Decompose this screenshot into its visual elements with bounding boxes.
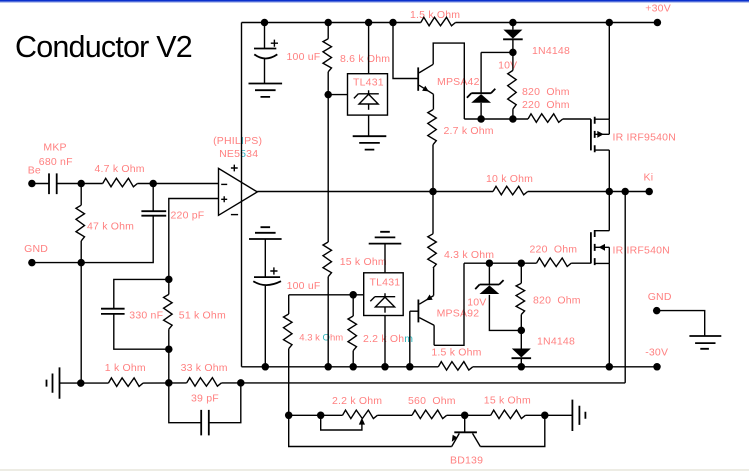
wire MPSA42 collector riser to bias wire [433, 43, 464, 119]
wire node to trimmer 2.2k [321, 414, 343, 416]
svg-text:15 k Ohm: 15 k Ohm [340, 256, 387, 268]
wire zener anode to bias wire [480, 103, 482, 119]
wire R 8.6k to TL431 ref node [327, 72, 329, 95]
trimmer resistor 2.2k bottom [343, 410, 378, 419]
wire MPSA92 base lead [410, 310, 419, 312]
svg-text:BD139: BD139 [450, 455, 483, 467]
inverted ground above TL431 bottom [369, 232, 402, 244]
svg-text:-30V: -30V [645, 347, 668, 359]
zener diode 10V top [467, 89, 495, 98]
svg-text:GND: GND [24, 243, 48, 255]
resistor 1.5k top [421, 17, 456, 26]
wire MPSA42 emitter to R 2.7k [432, 94, 434, 109]
junction rail 100uF [261, 19, 269, 27]
wire BD139 collector return [480, 415, 545, 446]
svg-text:100 uF: 100 uF [287, 280, 321, 292]
junction trimmer [317, 412, 325, 420]
wire op-amp + input down [169, 199, 219, 280]
wire R 820 to bias wire [512, 109, 514, 119]
wire left ground to node [60, 382, 81, 384]
wire op-amp supply vertical V+ to V- [241, 23, 243, 367]
junction lower ground [77, 379, 85, 387]
wire down-left to C 39pF [169, 383, 201, 423]
junction rail 2.2k [349, 363, 357, 371]
MOSFET IRF9540N [591, 117, 609, 152]
resistor 2.2k [348, 316, 357, 351]
wire -30V rail right part [609, 366, 657, 368]
svg-text:10 k Ohm: 10 k Ohm [486, 173, 533, 185]
wire inverted ground to TL431 cathode [384, 244, 386, 273]
resistor 820 top [508, 70, 517, 109]
svg-text:NE5534: NE5534 [219, 148, 258, 160]
wire node to R 1k [81, 382, 109, 384]
svg-text:(PHILIPS): (PHILIPS) [213, 135, 262, 147]
inverted ground above C 100uF bottom [249, 227, 282, 239]
capacitor 330nF [101, 309, 125, 314]
wire ref node to R 2.2k [352, 295, 354, 316]
resistor 1.5k bottom [438, 362, 473, 371]
junction rail MPSA42 base [389, 19, 397, 27]
ground left of R 1k [47, 367, 60, 398]
svg-text:2.2 k Ohm: 2.2 k Ohm [332, 395, 382, 407]
wire TL431 anode to -30V rail [384, 316, 386, 367]
wire zener anode to node [489, 295, 521, 331]
svg-text:10V: 10V [467, 296, 486, 308]
terminal GND left [28, 259, 36, 267]
junction rail 15k [324, 363, 332, 371]
wire R 51k to feedback node [168, 329, 170, 383]
svg-text:MKP: MKP [43, 141, 66, 153]
svg-text:220 Ohm: 220 Ohm [530, 244, 578, 256]
ground right of bias network [572, 400, 585, 431]
voltage reference TL431 top [348, 74, 388, 115]
resistor 4.3k mid [428, 234, 437, 268]
transistor BD139 [452, 432, 481, 446]
wire rail to R 8.6k [327, 23, 329, 39]
wire C 680nF to node [57, 183, 81, 185]
svg-text:IR IRF540N: IR IRF540N [613, 244, 670, 256]
wire rail to D 1N4148 [512, 23, 514, 30]
svg-text:33 k Ohm: 33 k Ohm [181, 362, 228, 374]
svg-text:680 nF: 680 nF [39, 156, 73, 168]
wire R 4.3k to output line [432, 192, 434, 234]
junction zener bias top [477, 115, 485, 123]
svg-text:1N4148: 1N4148 [532, 45, 570, 57]
capacitor 39pF [201, 410, 209, 436]
wire TL431 anode to ground [368, 115, 370, 136]
svg-text:10V: 10V [498, 59, 517, 71]
diode 1N4148 top [503, 30, 522, 39]
wire MPSA92 base riser to -30V rail [409, 311, 411, 367]
wire +30V rail right [456, 22, 658, 24]
junction rail MPSA92 base [406, 363, 414, 371]
svg-text:820 Ohm: 820 Ohm [533, 294, 581, 306]
capacitor 680nF MKP [49, 173, 57, 194]
svg-text:560 Ohm: 560 Ohm [408, 395, 456, 407]
wire input Be to C 680nF [32, 183, 49, 185]
svg-text:8.6 k Ohm: 8.6 k Ohm [340, 53, 390, 65]
junction rail TL431 [365, 19, 373, 27]
wire TL431 ref to R 4.3k branch [289, 294, 364, 296]
wire op-amp output to R 10k [257, 191, 493, 193]
svg-text:TL431: TL431 [353, 76, 384, 88]
wire BD139 base stub [464, 415, 466, 432]
junction inverting input [149, 180, 157, 188]
ground below C 100uF top [249, 84, 283, 97]
svg-text:4.3 k Ohm: 4.3 k Ohm [299, 333, 343, 344]
resistor 4.7k [103, 178, 138, 187]
svg-text:330 nF: 330 nF [129, 310, 163, 322]
wire R 10k to Ki terminal [528, 191, 650, 193]
trimmer wiper arrowhead [359, 418, 365, 425]
wire ref node down crossing output line [327, 95, 329, 242]
wire R 2.7k to output line [432, 145, 434, 192]
wire R 560 to BD139 base node [447, 414, 465, 416]
resistor 4.3k left [284, 314, 293, 349]
wire node to R 4.7k [81, 183, 103, 185]
junction 820 1N4148 bottom [518, 327, 526, 335]
wire bottom bias run to R 220 [464, 262, 537, 264]
terminal -30V [653, 363, 661, 371]
svg-text:MPSA92: MPSA92 [437, 308, 480, 320]
wire -30V rail mid part [473, 366, 610, 368]
wire node down to R 47k [80, 184, 82, 206]
svg-text:2.7 k Ohm: 2.7 k Ohm [444, 125, 494, 137]
svg-text:220 Ohm: 220 Ohm [522, 99, 570, 111]
wire node to R 820 [512, 52, 514, 70]
wire bias left segment [289, 414, 321, 416]
junction 820 bias bottom [518, 259, 526, 267]
wire R 47k to ground node [80, 241, 82, 263]
wire R 2.2k to -30V rail [352, 351, 354, 367]
wire +30V rail left [242, 22, 421, 24]
junction rail 1N4148 bottom [518, 363, 526, 371]
wire R 4.7k to op-amp inverting input [137, 183, 218, 185]
junction rail 100uF bottom [262, 363, 270, 371]
wire node to R 51k [168, 279, 170, 294]
junction input node [77, 180, 85, 188]
junction 51k bottom [165, 345, 173, 353]
wire inverted ground to C 100uF [264, 239, 266, 277]
junction 820 bias top [509, 115, 517, 123]
bottom status bar edge (decorative) [0, 469, 749, 471]
wire down to R 4.3k [288, 295, 290, 314]
resistor 220 top [528, 114, 563, 123]
wire node to D 1N4148 [520, 330, 522, 348]
diode 1N4148 bottom [512, 349, 531, 358]
wire C 39pF to junction [209, 383, 241, 423]
svg-text:47 k Ohm: 47 k Ohm [87, 220, 134, 232]
svg-text:820 Ohm: 820 Ohm [522, 86, 570, 98]
wire C 330nF bottom to node [114, 314, 169, 349]
wire node to C 220pF top [152, 184, 154, 212]
wire node to R 820 [520, 263, 522, 283]
junction feedback 51k [165, 379, 173, 387]
resistor 15k mid [323, 242, 332, 277]
resistor 47k [76, 205, 85, 241]
top blue browser edge (decorative) [0, 0, 749, 2]
wire node to zener branch [481, 51, 513, 53]
wire D 1N4148 to node [512, 40, 514, 53]
wire MPSA92 collector riser [434, 263, 464, 345]
resistor 51k [164, 294, 173, 329]
svg-text:MPSA42: MPSA42 [437, 76, 480, 88]
resistor 15k bottom [491, 410, 526, 419]
junction TL431 ref bottom [349, 291, 357, 299]
wire MPSA92 emitter riser to R 4.3k [433, 268, 435, 296]
wire feedback run to output riser [241, 382, 625, 384]
wire IRF9540N drain to output node [608, 150, 610, 191]
wire node down to zener 10V [488, 263, 490, 284]
junction TL431 ref top [324, 91, 332, 99]
resistor 2.7k [428, 110, 437, 145]
transistor MPSA92 [418, 295, 434, 326]
wire branch to C 330nF top [114, 279, 169, 308]
ground right GND terminal [657, 311, 722, 349]
resistor 8.6k [323, 39, 332, 72]
junction rail TL431 bottom [381, 363, 389, 371]
terminal Be [28, 180, 36, 188]
capacitor 100uF top [254, 40, 278, 59]
resistor 820 bottom [516, 283, 525, 314]
capacitor 220pF [141, 211, 166, 216]
junction rail 8.6k [324, 19, 332, 27]
ground below TL431 top [353, 136, 387, 149]
junction rail IRF540N [606, 363, 614, 371]
resistor 220 bottom [537, 258, 572, 267]
wire trimmer to R 560 [377, 414, 412, 416]
svg-text:1N4148: 1N4148 [537, 336, 575, 348]
svg-text:TL431: TL431 [370, 277, 401, 289]
junction 51k top [165, 276, 173, 284]
wire R 15k to -30V rail [327, 277, 329, 367]
svg-text:4.3 k Ohm: 4.3 k Ohm [444, 249, 494, 261]
resistor 33k [187, 378, 222, 387]
svg-text:4.7 k Ohm: 4.7 k Ohm [95, 163, 145, 175]
terminal GND right [653, 307, 661, 315]
junction ground node [77, 259, 85, 267]
wire base node to R 15k [465, 414, 491, 416]
svg-text:1 k Ohm: 1 k Ohm [105, 362, 146, 374]
MOSFET IRF540N [591, 230, 609, 265]
wire R 15k to node [525, 414, 544, 416]
wire R 220 to IRF540N gate [571, 262, 591, 264]
voltage reference TL431 bottom [364, 273, 404, 316]
wire top bias run to R 220 [464, 118, 528, 120]
wire rail to TL431 cathode [368, 23, 370, 74]
wire GND terminal to C 220pF bottom [32, 216, 153, 263]
svg-text:100 uF: 100 uF [287, 51, 321, 63]
junction rail IRF9540N [606, 19, 614, 27]
svg-text:220 pF: 220 pF [171, 210, 205, 222]
wire ref node to TL431 box [328, 94, 347, 96]
junction 1N4148 zener [509, 49, 517, 57]
wire node to right ground [545, 414, 573, 416]
wire IRF540N source to -30V rail [608, 263, 610, 366]
svg-text:2.2 k Ohm: 2.2 k Ohm [363, 333, 413, 345]
svg-text:15 k Ohm: 15 k Ohm [484, 395, 531, 407]
junction bias left [285, 412, 293, 420]
terminal +30V [654, 19, 662, 27]
resistor 10k [493, 186, 528, 195]
wire +30V to IRF9540N source [608, 23, 610, 120]
junction output MOSFETs [606, 188, 614, 196]
wire R 4.3k down to bias network [288, 349, 290, 416]
wire rail to MPSA42 base [393, 23, 418, 79]
terminal Ki [645, 188, 653, 196]
wire trimmer wiper [321, 415, 362, 430]
svg-text:+30V: +30V [645, 2, 671, 14]
wire down to zener 10V cathode [480, 52, 482, 93]
wire MPSA92 collector down [433, 325, 435, 345]
wire R 220 to IRF9540N gate [563, 118, 591, 120]
wire R 1k to R 33k [143, 382, 187, 384]
junction zener bias bottom [486, 259, 494, 267]
wire feedback riser up to Ki node [624, 192, 626, 383]
resistor 560 [412, 410, 447, 419]
junction output feedback [621, 188, 629, 196]
zener diode 10V bottom [475, 280, 503, 289]
junction 15k ground [541, 412, 549, 420]
junction feedback 33k [237, 379, 245, 387]
junction BD139 base [461, 412, 469, 420]
svg-text:Conductor V2: Conductor V2 [15, 30, 192, 64]
wire output node to IRF540N drain [608, 192, 610, 231]
junction output 2.7k [429, 188, 437, 196]
svg-text:IR IRF9540N: IR IRF9540N [613, 132, 676, 144]
wire bias return to BD139 emitter [289, 415, 452, 446]
capacitor 100uF bottom [253, 267, 281, 285]
svg-text:Ki: Ki [644, 172, 654, 184]
svg-text:GND: GND [648, 291, 672, 303]
wire rail to C 100uF top [264, 23, 266, 49]
svg-text:51 k Ohm: 51 k Ohm [179, 310, 226, 322]
op-amp NE5534 [219, 165, 258, 216]
resistor 1k [108, 378, 143, 387]
transistor MPSA42 [418, 64, 433, 94]
wire C 100uF to ground [264, 58, 266, 84]
wire C 100uF to -30V rail [264, 286, 266, 367]
svg-text:1.5 k Ohm: 1.5 k Ohm [431, 347, 481, 359]
svg-text:39 pF: 39 pF [191, 393, 219, 405]
wire R 820 to node [520, 315, 522, 331]
wire -30V rail left part [242, 366, 439, 368]
wire ground node down to lower ground [80, 263, 82, 384]
junction rail 1N4148 [509, 19, 517, 27]
wire R 33k to feedback junction [221, 382, 240, 384]
wire D 1N4148 to -30V rail [520, 358, 522, 367]
